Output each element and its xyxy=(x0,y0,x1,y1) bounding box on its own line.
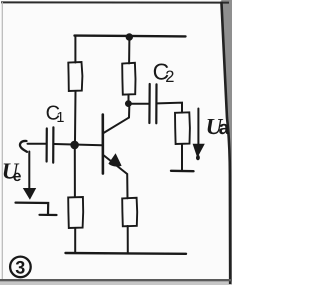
wire: collector node to C2 xyxy=(130,103,148,105)
ground (input side) step symbol xyxy=(16,203,57,215)
wire: top supply rail xyxy=(75,34,186,37)
wire: C1 to base node and on to transistor base xyxy=(55,144,102,145)
arrow Ua shaft xyxy=(197,109,199,145)
transistor collector lead xyxy=(104,107,130,133)
node A: junction dot on supply rail xyxy=(126,33,133,40)
svg-text:2: 2 xyxy=(165,68,174,86)
wire: lower bias resistor to bottom rail xyxy=(74,228,76,253)
scan edge: grey strip below bottom border xyxy=(0,282,232,285)
svg-text:e: e xyxy=(13,168,22,185)
resistor (lower bias divider) xyxy=(68,197,83,228)
wire: bottom ground rail xyxy=(66,252,187,255)
capacitor C2 right plate xyxy=(155,84,157,123)
wire: rail left end down to upper bias resistor xyxy=(74,36,76,63)
node C: collector junction dot xyxy=(125,100,132,107)
transistor base bar xyxy=(102,115,105,174)
capacitor C1 right plate xyxy=(52,127,54,162)
page background xyxy=(0,0,232,285)
node B: base junction dot xyxy=(70,141,79,150)
ground (output side) xyxy=(171,170,194,173)
resistor (upper bias divider) xyxy=(68,62,82,91)
svg-text:a: a xyxy=(219,118,230,139)
frame: left border line xyxy=(1,2,3,281)
wire: output resistor down to ground xyxy=(181,144,183,170)
svg-text:1: 1 xyxy=(56,110,64,126)
capacitor C2 left plate xyxy=(148,84,151,123)
resistor (output load) xyxy=(175,112,190,144)
frame: right border line xyxy=(221,2,230,285)
wire: input terminal to C1 xyxy=(28,143,46,145)
transistor emitter lead xyxy=(104,156,128,199)
wire: C2 to output resistor xyxy=(158,103,182,113)
figure number circle 3 xyxy=(10,257,31,278)
wire: collector node up to collector resistor xyxy=(128,95,130,103)
frame: bottom border line xyxy=(0,279,231,281)
frame: top border line xyxy=(1,1,229,3)
input terminal xyxy=(20,141,27,152)
arrow Ua head xyxy=(193,144,205,160)
arrow Ue head xyxy=(23,188,36,200)
wire: base node to lower bias resistor xyxy=(74,148,76,197)
transistor emitter arrowhead (PNP) xyxy=(108,153,121,166)
wire: upper bias resistor to base node xyxy=(74,91,77,141)
resistor (emitter) xyxy=(122,198,137,227)
capacitor C1 left plate xyxy=(45,129,47,162)
svg-text:3: 3 xyxy=(15,257,25,277)
wire: supply rail node down to collector resistor xyxy=(128,38,130,64)
wire: emitter resistor to bottom rail xyxy=(127,226,129,253)
scan edge: grey wedge right of page border xyxy=(221,0,232,285)
arrow Ue shaft xyxy=(28,152,30,189)
resistor (collector load) xyxy=(122,63,135,95)
